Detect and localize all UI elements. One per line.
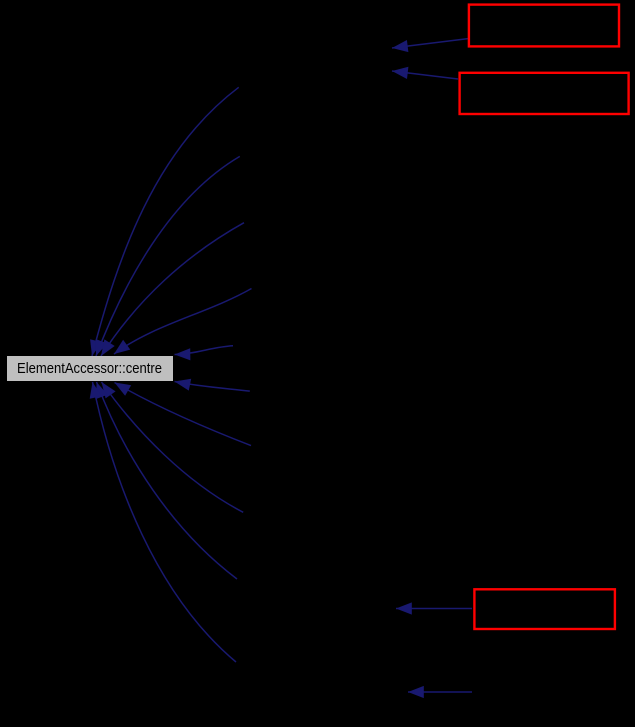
call edge: hidden caller (row 662) to centre, outer bottom arc	[90, 382, 236, 662]
call edge: hidden caller (row 156) to centre	[96, 156, 240, 356]
call edge: hidden caller (row 289) to centre	[114, 289, 252, 355]
call edge: hidden caller (row 512) to centre	[102, 382, 244, 512]
node ElementAccessor::centre (grey current-function box with label)	[7, 356, 173, 381]
call edge: hidden caller (row 391) into bottom-right corner of centre box	[175, 379, 250, 391]
edge: red node 1 to hidden node (top right)	[392, 39, 469, 53]
call edge: hidden caller (row 346) into top-right corner of centre box	[175, 346, 234, 361]
svg-text:ElementAccessor::centre: ElementAccessor::centre	[17, 360, 162, 377]
edge: red node 2 to hidden node (top right)	[392, 67, 458, 79]
call edge: hidden caller (row 223) to centre	[101, 223, 244, 356]
red truncated-node box 3 (bottom right)	[474, 589, 615, 629]
red truncated-node box 1 (top right)	[469, 5, 619, 47]
call edge: hidden caller (row 87) to centre, outer top arc	[90, 87, 239, 356]
call edge: hidden caller (row 579) to centre	[96, 382, 237, 579]
edge: hidden node to hidden node (bottom right)	[408, 686, 472, 698]
edge: red node 3 to hidden node (bottom right)	[396, 602, 472, 614]
red truncated-node box 2 (top right, lower)	[460, 73, 629, 114]
call edge: hidden caller (row 446) to centre	[115, 383, 252, 446]
